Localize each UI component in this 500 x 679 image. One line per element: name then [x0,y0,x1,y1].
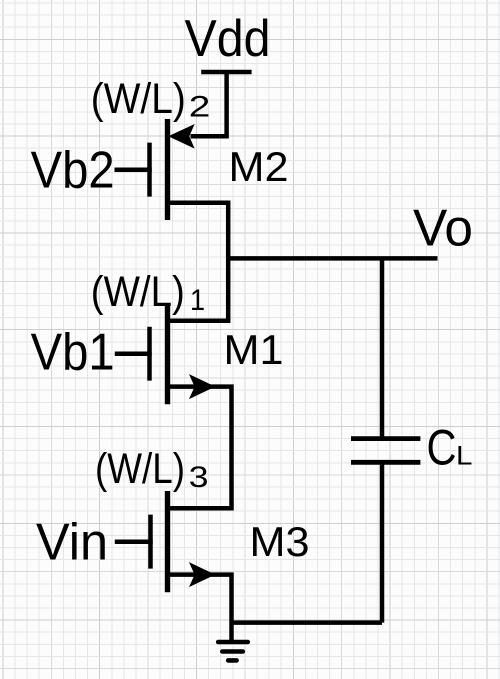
svg-text:C: C [427,420,457,476]
source arrow of transistor M3 (NMOS) [189,562,215,587]
svg-text:(W/L): (W/L) [91,268,185,316]
svg-text:(W/L): (W/L) [95,445,185,493]
transistor M1 gate bar [147,327,152,381]
wire Vb2 to M2 gate [115,168,152,173]
svg-text:(W/L): (W/L) [91,75,186,123]
capacitor CL bottom plate [351,460,420,465]
wire M1 source to M3 drain [168,387,232,509]
svg-text:Vdd: Vdd [185,10,271,68]
svg-text:M1: M1 [224,326,284,373]
wire output node Vo [226,256,438,261]
wire M3 source to ground [168,575,232,642]
svg-text:L: L [456,441,473,471]
svg-text:Vb2: Vb2 [31,142,115,200]
wire CL bottom plate to ground rail [380,462,385,622]
svg-text:Vo: Vo [413,200,473,258]
wire M2 drain down to M1 drain (trunk) [168,203,229,321]
svg-text:M2: M2 [229,143,289,190]
source arrow of transistor M1 (NMOS) [189,374,215,399]
wire Vo node down to CL top plate [380,258,385,438]
transistor M2 gate bar [147,143,152,197]
wire ground rail to CL bottom [232,620,383,625]
wire Vdd rail to M2 source [191,71,227,136]
svg-text:Vb1: Vb1 [31,323,115,381]
transistor M2 channel bar [165,119,170,220]
svg-text:3: 3 [189,461,209,494]
wire Vin to M3 gate [115,540,153,545]
ground symbol [218,642,248,660]
svg-text:M3: M3 [250,518,310,565]
Vdd power rail bar [201,70,251,75]
source arrow of transistor M2 (PMOS) [168,124,194,149]
svg-text:2: 2 [189,91,211,124]
transistor M3 gate bar [148,515,153,569]
transistor M3 channel bar [165,491,170,592]
svg-text:1: 1 [190,284,205,317]
transistor M1 channel bar [165,303,170,404]
capacitor CL top plate [351,436,420,441]
svg-text:Vin: Vin [36,513,108,571]
wire Vb1 to M1 gate [115,352,152,357]
